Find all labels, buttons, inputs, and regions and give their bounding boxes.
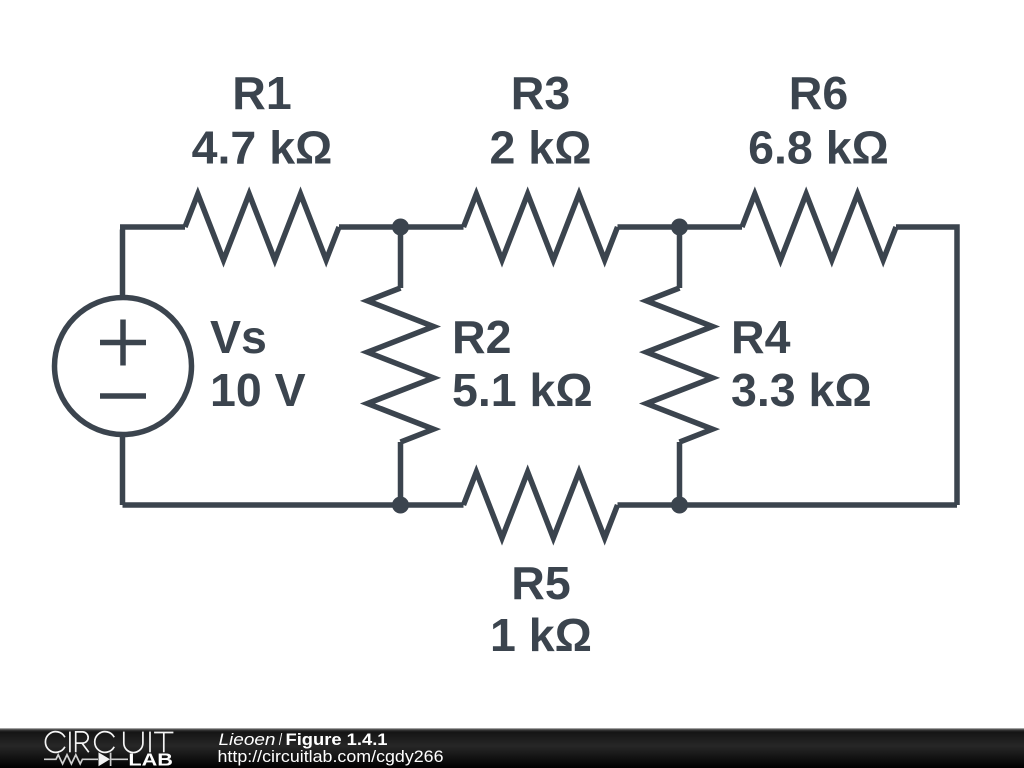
svg-text:R1: R1 <box>232 67 291 119</box>
wire top segment 1 <box>120 224 185 230</box>
svg-text:1 kΩ: 1 kΩ <box>490 609 592 661</box>
svg-text:R4: R4 <box>731 311 791 363</box>
svg-text:6.8 kΩ: 6.8 kΩ <box>748 122 889 174</box>
wire R2 bottom lead <box>398 442 404 505</box>
logo letter I1 <box>69 732 71 753</box>
wire R2 top lead <box>398 227 404 288</box>
logo letter C2 <box>95 732 114 753</box>
resistor R6 <box>742 194 896 260</box>
wire bottom segment 2 <box>618 502 958 508</box>
wire top segment 4 <box>896 227 957 505</box>
logo letter C1 <box>45 732 64 753</box>
wire top segment 2 <box>339 224 464 230</box>
CircuitLab logo word CIRCUIT (drawn thin strokes) <box>45 732 173 753</box>
logo letter R <box>76 732 89 752</box>
wire left vertical top <box>120 230 126 298</box>
wire R4 top lead <box>677 227 683 288</box>
resistor R1 <box>185 194 339 260</box>
CircuitLab logo schematic glyph (resistor + diode wire) <box>44 753 128 766</box>
resistor R5 <box>464 472 618 538</box>
node A junction dot <box>392 219 409 236</box>
logo letter T <box>154 733 173 753</box>
svg-text:2 kΩ: 2 kΩ <box>490 122 592 174</box>
wire top segment 3 <box>618 224 743 230</box>
resistor R4 <box>647 288 713 442</box>
logo letter I2 <box>149 732 151 753</box>
node C junction dot <box>392 497 409 514</box>
svg-text:Vs: Vs <box>210 311 267 363</box>
svg-text:http://circuitlab.com/cgdy266: http://circuitlab.com/cgdy266 <box>218 747 444 766</box>
resistor R3 <box>464 194 618 260</box>
wire R4 bottom lead <box>677 442 683 505</box>
wire left vertical bottom <box>120 435 126 505</box>
voltage source Vs circle <box>55 298 192 435</box>
voltage source plus sign <box>100 320 146 366</box>
svg-text:5.1 kΩ: 5.1 kΩ <box>452 364 593 416</box>
node D junction dot <box>671 497 688 514</box>
svg-text:4.7 kΩ: 4.7 kΩ <box>192 122 333 174</box>
node B junction dot <box>671 219 688 236</box>
svg-text:R3: R3 <box>511 67 570 119</box>
voltage source minus sign <box>100 393 146 399</box>
svg-text:R5: R5 <box>511 557 570 609</box>
CircuitLab logo diode triangle <box>99 752 111 766</box>
svg-text:10 V: 10 V <box>210 364 306 416</box>
logo letter U <box>124 732 143 753</box>
svg-text:R2: R2 <box>452 311 511 363</box>
svg-text:R6: R6 <box>789 67 848 119</box>
svg-text:LAB: LAB <box>128 750 173 768</box>
svg-text:3.3 kΩ: 3.3 kΩ <box>731 364 872 416</box>
wire bottom segment 1 <box>123 502 464 508</box>
resistor R2 <box>368 288 434 442</box>
